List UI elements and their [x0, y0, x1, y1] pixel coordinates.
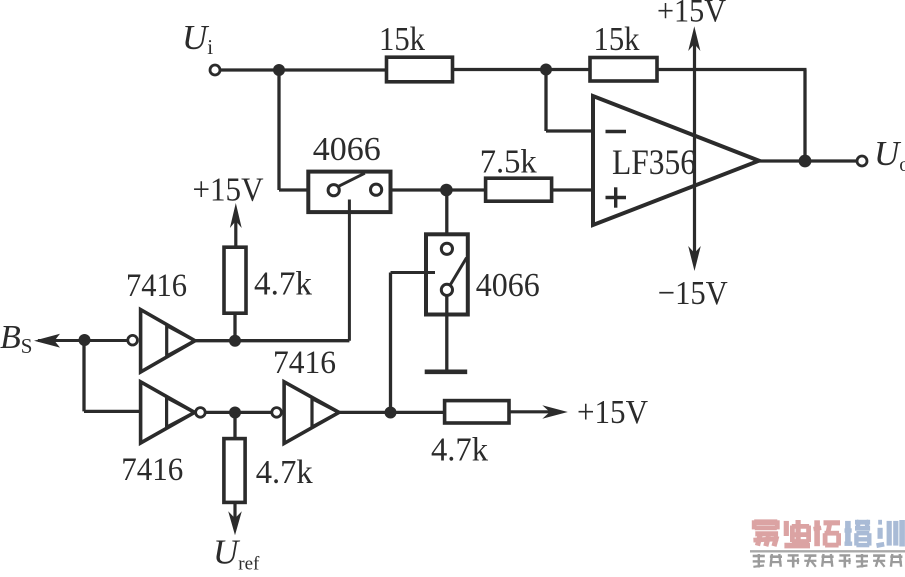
svg-text:7416: 7416 [273, 345, 336, 381]
svg-text:4066: 4066 [313, 131, 381, 168]
svg-text:+15V: +15V [193, 172, 264, 209]
svg-text:LF356: LF356 [612, 142, 696, 182]
svg-text:7.5k: 7.5k [480, 144, 537, 181]
svg-text:7416: 7416 [121, 452, 183, 488]
svg-text:−15V: −15V [658, 275, 728, 312]
svg-text:15k: 15k [379, 21, 425, 58]
svg-text:15k: 15k [594, 21, 640, 58]
svg-text:4.7k: 4.7k [254, 266, 312, 303]
svg-text:4.7k: 4.7k [256, 454, 313, 491]
svg-text:+15V: +15V [657, 0, 726, 30]
svg-text:7416: 7416 [126, 268, 187, 304]
svg-text:4.7k: 4.7k [431, 432, 488, 469]
svg-text:4066: 4066 [476, 267, 540, 304]
svg-text:+15V: +15V [577, 394, 648, 431]
